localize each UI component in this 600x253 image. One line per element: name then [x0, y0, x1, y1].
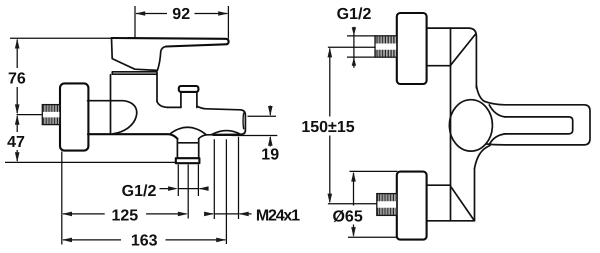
- aerator seat arc: [212, 131, 241, 135]
- top nipple: [375, 36, 397, 57]
- dim Ø65 arrows: [351, 172, 356, 182]
- diverter knob cap: [179, 86, 199, 92]
- dim 19 extension lines: [232, 116, 278, 135]
- lever inner flare top: [489, 105, 505, 117]
- top axis line: [328, 46, 376, 48]
- shower axis extension line: [187, 165, 189, 219]
- dim 92 arrows: [135, 11, 145, 16]
- top rosette: [397, 13, 427, 84]
- dim 125 line: [63, 213, 187, 215]
- diverter knob pipe: [181, 92, 197, 108]
- wall plane extension line: [61, 152, 63, 245]
- bottom chamfer diagonal: [451, 187, 474, 220]
- dim 47 arrows: [15, 115, 20, 125]
- column lower right edge: [474, 168, 476, 220]
- column left edge: [450, 28, 452, 221]
- dim Ø65 line: [353, 173, 355, 236]
- inlet axis line: [17, 114, 42, 116]
- dim 150±15 arrows: [328, 47, 333, 57]
- dim 163 line: [63, 239, 225, 241]
- handle skirt: [112, 72, 157, 74]
- hub circle: [449, 100, 492, 151]
- top chamfer diagonal: [451, 35, 475, 65]
- fillet bottom hub to column: [475, 146, 491, 169]
- wall rosette: [60, 83, 88, 150]
- dim 47 line: [16, 116, 18, 161]
- shower outlet pipe: [177, 139, 198, 159]
- cartridge body right side: [156, 75, 158, 102]
- svg-text:150±15: 150±15: [301, 119, 354, 136]
- svg-text:M24x1: M24x1: [256, 208, 300, 225]
- column bottom edge: [427, 220, 475, 222]
- aerator axis extension line: [225, 139, 227, 244]
- rosette extension lines: [348, 171, 398, 237]
- lever outer contour: [485, 101, 591, 145]
- shower outlet rim: [176, 158, 200, 163]
- threaded nipple: [42, 105, 60, 125]
- bottom nipple: [377, 194, 397, 216]
- column top edge and right edge: [427, 28, 477, 88]
- dim G1/2 vertical line and arrows: [353, 27, 355, 68]
- handle body: [112, 38, 167, 70]
- svg-text:163: 163: [131, 233, 158, 250]
- svg-text:47: 47: [7, 134, 25, 151]
- dim 19 line and arrows: [269, 106, 271, 147]
- svg-text:G1/2: G1/2: [337, 6, 372, 23]
- fillet top column to lever: [476, 86, 484, 102]
- spout body outline: [197, 106, 246, 138]
- nipple extension lines: [347, 36, 375, 57]
- bottom rosette: [397, 172, 427, 240]
- dim 163 arrows: [62, 238, 72, 243]
- svg-text:76: 76: [8, 70, 26, 87]
- svg-text:92: 92: [172, 6, 190, 23]
- dim 125 arrows: [62, 212, 72, 217]
- dim M24x1 arrows: [204, 212, 214, 217]
- bottom spacer top edge: [427, 184, 451, 186]
- bottom axis line: [328, 203, 377, 205]
- connector top edge: [88, 100, 123, 102]
- top reference line: [10, 37, 111, 39]
- lever inner contour: [505, 117, 573, 134]
- dim M24x1 lines: [205, 213, 252, 215]
- svg-text:Ø65: Ø65: [332, 209, 362, 226]
- cartridge body left side: [110, 75, 112, 134]
- aerator extension lines: [214, 137, 238, 219]
- svg-text:19: 19: [261, 147, 279, 164]
- top spacer bottom edge: [427, 65, 451, 67]
- shower funnel arc: [170, 127, 206, 134]
- waterway top edge: [168, 106, 181, 108]
- cartridge dome arc: [113, 101, 137, 134]
- lever inner flare bottom: [489, 134, 505, 145]
- dim G1/2 left line and arrows: [160, 188, 206, 190]
- lever handle bar: [112, 38, 229, 47]
- body bottom edge: [88, 134, 177, 139]
- svg-text:125: 125: [111, 207, 138, 224]
- spout end face arc: [242, 113, 245, 130]
- dim 92 line: [136, 13, 227, 15]
- svg-text:G1/2: G1/2: [122, 183, 157, 200]
- dim 76 line: [16, 40, 18, 114]
- aerator bottom rim: [213, 134, 241, 136]
- dim 150±15 line: [329, 49, 331, 203]
- dim 76 arrows: [15, 39, 20, 49]
- fillet cartridge to spout top: [157, 101, 168, 107]
- dim 92 extension lines: [135, 6, 228, 39]
- shower thread extension lines: [178, 165, 198, 197]
- bottom reference line: [5, 161, 177, 163]
